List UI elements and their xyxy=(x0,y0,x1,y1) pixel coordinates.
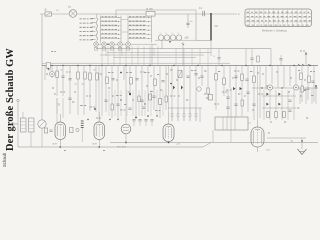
wire coil L1 bottom xyxy=(96,41,98,44)
wire rail stub x106 xyxy=(105,49,107,56)
label band2 e xyxy=(140,71,145,73)
label extra b xyxy=(72,101,74,103)
resistor R13 xyxy=(223,78,226,85)
pushbutton contact 1 xyxy=(171,108,174,121)
wire rail y56 xyxy=(100,54,204,56)
wire S2-S3 link a xyxy=(121,19,128,21)
node S1e xyxy=(92,35,93,36)
resistor R26 xyxy=(165,96,167,102)
coil L2 circle xyxy=(158,35,163,40)
node x130 blob xyxy=(129,93,131,95)
capacitor C37 xyxy=(128,108,131,109)
capacitor C8 xyxy=(111,79,114,80)
wire if-drop x151 xyxy=(150,90,152,116)
wire V2 anode xyxy=(98,112,100,122)
wire drop x224 xyxy=(223,66,225,97)
switch bank S2 row 4 label xyxy=(102,28,117,30)
capacitor C31 xyxy=(252,104,255,105)
wire C27 stub xyxy=(151,121,153,126)
wire L6 top stub xyxy=(22,112,24,118)
label extra r xyxy=(160,89,162,91)
diode D4 xyxy=(278,103,280,106)
resistor R25 xyxy=(111,104,113,110)
label extra u xyxy=(288,91,290,93)
wire V1 cathode xyxy=(59,140,61,148)
wire ladder v x270 xyxy=(269,90,271,120)
wire V5 heater link xyxy=(267,137,306,139)
capacitor C18 xyxy=(245,79,248,80)
wire drop x308 xyxy=(307,66,309,101)
node return x316 xyxy=(315,87,316,88)
switch bank S2 row 6 xyxy=(101,38,122,40)
capacitor C27 xyxy=(150,120,153,121)
node V1 cathode join xyxy=(59,146,61,148)
node S2 row 3 xyxy=(118,25,119,26)
wire rail B+ corner xyxy=(270,49,272,66)
label extra m xyxy=(284,121,286,123)
wire aux drop x116 xyxy=(115,10,117,16)
switch bank S3 row 6 label xyxy=(129,37,145,39)
node V4 cathode join xyxy=(168,142,170,144)
fuse Si1 xyxy=(45,12,51,16)
resistor R6 xyxy=(96,73,99,80)
pushbutton contact 4 xyxy=(189,108,192,121)
tube V1 UCH21 xyxy=(55,122,66,140)
wire gang drop x42 xyxy=(41,66,43,120)
wire C26 stub xyxy=(145,121,147,126)
node bus x126 xyxy=(125,65,126,66)
node S2 row 6 xyxy=(118,38,119,39)
label M2 d xyxy=(218,71,220,73)
pickup jack xyxy=(11,123,18,126)
resistor R31 xyxy=(138,96,140,102)
capacitor C29 xyxy=(200,76,203,77)
wire drop x57 lower xyxy=(56,98,58,114)
node x305 dark xyxy=(304,89,306,91)
wire riser x150 xyxy=(149,46,151,66)
label extra l xyxy=(258,93,263,95)
label band2 o xyxy=(54,93,56,95)
resistor R9 xyxy=(154,79,157,86)
wire if-drop x127 xyxy=(126,90,128,116)
wire if-drop x163 xyxy=(162,90,164,116)
wire drop x248 xyxy=(247,66,249,113)
tube V5 UL41 xyxy=(251,127,264,147)
wire coil L1 top xyxy=(96,14,98,18)
wire drop x142 xyxy=(141,66,143,117)
capacitor C26 xyxy=(144,120,147,121)
label band2 x xyxy=(300,95,302,97)
label band2 f xyxy=(150,75,152,77)
switch bank S3 row 5 label xyxy=(129,33,145,35)
node S3 row 1 xyxy=(148,17,149,18)
resistor R18 xyxy=(267,112,270,118)
wire drop x70 xyxy=(69,66,71,115)
svg-text:UCH: UCH xyxy=(52,144,57,146)
capacitor C11 xyxy=(142,107,145,108)
switch bank S2 row 4 xyxy=(101,29,122,31)
wire riser x132 xyxy=(131,46,133,66)
label extra s xyxy=(222,91,227,93)
label band2 q xyxy=(112,95,114,97)
wire drop x196 xyxy=(195,66,197,109)
capacitor C36 xyxy=(116,104,119,105)
wire drop x302 xyxy=(301,66,303,103)
wire drop x96 xyxy=(95,66,97,113)
wire rail y63 xyxy=(42,62,230,64)
capacitor C21 xyxy=(311,81,314,82)
ground symbol tick xyxy=(300,151,305,153)
resistor R1 series xyxy=(146,11,155,16)
wire osc drop x183 xyxy=(182,42,184,66)
label M1 g xyxy=(150,91,153,93)
wire ladder v x276 xyxy=(275,90,277,120)
switch bank S3 row 1 xyxy=(128,17,152,19)
wire ladder top xyxy=(262,95,296,97)
node S2 row 4 xyxy=(118,30,119,31)
resistor R17 xyxy=(253,76,256,83)
capacitor C26 xyxy=(68,98,71,99)
switch contact S1e xyxy=(92,34,96,36)
diode D6 xyxy=(240,87,243,90)
node x121 dark xyxy=(120,72,122,74)
switch bank S3 row 4 label xyxy=(129,28,145,30)
resistor R22 xyxy=(308,76,311,83)
wire drop x242 xyxy=(241,66,243,117)
node S3 row 3 xyxy=(148,25,149,26)
label band2 m xyxy=(290,77,292,79)
label R f xyxy=(311,95,313,97)
diode D1 xyxy=(266,93,268,96)
label extra g xyxy=(170,95,175,97)
wire coil row drop xyxy=(151,44,153,65)
node S1c xyxy=(92,26,93,27)
resistor R12 xyxy=(215,74,218,81)
label R c xyxy=(257,72,259,74)
switch wafer contact 4 xyxy=(118,42,123,50)
switch row S1b label xyxy=(80,22,93,24)
wire if-drop x109 xyxy=(108,90,110,116)
fuse Si1 element xyxy=(46,13,51,16)
node bus x310 xyxy=(309,65,310,66)
capacitor C19 xyxy=(288,100,291,101)
diode D2 xyxy=(278,93,280,96)
wire drop low x300 xyxy=(299,88,301,104)
label band2 a xyxy=(46,73,48,75)
label band2 l xyxy=(276,71,278,73)
wire drop x202 xyxy=(201,66,203,87)
wire drop x166 xyxy=(165,66,167,111)
node S1d xyxy=(92,31,93,32)
node bus x222 xyxy=(221,65,222,66)
node x136 dark xyxy=(135,117,137,119)
wire V5 anode xyxy=(257,120,259,127)
wire return rail y88 xyxy=(252,87,318,89)
resistor R5 xyxy=(89,73,92,80)
wire ladder bottom xyxy=(262,107,296,109)
coil L4 circle xyxy=(170,35,175,40)
switch contact S1b xyxy=(92,22,96,24)
variable capacitor C22 xyxy=(38,120,46,128)
wire switch drop x200 xyxy=(199,108,201,122)
wire drop x118 xyxy=(117,66,119,121)
diode marks M2 xyxy=(173,86,183,90)
label misc a xyxy=(80,105,86,107)
switch bank S3 row 3 label xyxy=(129,24,145,26)
wire C35 stub b xyxy=(218,59,220,66)
capacitor C2 xyxy=(186,23,189,24)
wire drop x52 xyxy=(51,66,53,79)
wire drop x266 xyxy=(265,66,267,91)
wire Tr1 to V5 xyxy=(248,122,251,124)
wire rail mid drop x211 xyxy=(210,41,212,57)
label extra n xyxy=(297,107,299,109)
wire bottom return right xyxy=(110,142,318,144)
switch bank S2 row 2 xyxy=(101,21,122,23)
wire diagonal link xyxy=(203,143,211,148)
switch wafer contact 5 xyxy=(126,42,131,50)
coil L6 primary xyxy=(21,118,27,132)
switch bank S2 row 5 label xyxy=(102,33,117,35)
wire riser x120 xyxy=(119,46,121,66)
wire V3 top xyxy=(125,115,127,124)
wire riser x114 xyxy=(113,46,115,66)
node S3 row 5 xyxy=(148,34,149,35)
switch wafer contact 3 xyxy=(110,42,115,50)
node above V4 xyxy=(147,115,149,117)
node if c xyxy=(156,115,157,116)
switch contact S1c xyxy=(92,26,96,28)
resistor R3 xyxy=(77,72,80,79)
wire drop x236 xyxy=(235,66,237,119)
label M1 h xyxy=(155,110,161,112)
capacitor C15 xyxy=(226,107,229,108)
switch bank S2 row 5 xyxy=(101,33,122,35)
arrow marks on bus right xyxy=(298,64,310,66)
wire drop x178 xyxy=(177,66,179,109)
wire drop x112 xyxy=(111,66,113,119)
label extra k xyxy=(238,93,240,95)
switch row S1d label xyxy=(80,31,93,33)
wire coil row xyxy=(155,39,196,41)
wire drop x90 xyxy=(89,66,91,112)
capacitor C17 xyxy=(234,76,237,77)
wire drop x148 xyxy=(147,66,149,113)
switch bank S3 frame xyxy=(128,16,152,43)
label band2 b xyxy=(66,71,71,73)
wire C39 stub a xyxy=(280,55,282,59)
node speaker feed xyxy=(301,140,303,142)
switch bank S2 row 1 label xyxy=(102,16,117,18)
capacitor C24 xyxy=(132,120,135,121)
node bus x78 xyxy=(77,65,78,66)
coil L7 secondary xyxy=(29,118,35,132)
IF can circle B xyxy=(293,85,298,90)
wire wafer row xyxy=(94,43,157,45)
wire drop low x312 xyxy=(311,88,313,104)
switch row S1e label xyxy=(80,35,93,37)
label extra i xyxy=(204,93,206,95)
svg-text:2Ω: 2Ω xyxy=(215,25,218,28)
wire rail stub x138 xyxy=(137,49,139,56)
wire Tr1 bottom stub xyxy=(230,130,232,143)
wire drop low x306 xyxy=(305,88,307,104)
wire V4 cathode xyxy=(168,142,170,143)
wire drop x130 xyxy=(129,66,131,97)
resistor R8 xyxy=(130,78,133,85)
resistor R27 xyxy=(207,88,209,94)
label M2 e xyxy=(226,89,232,91)
resistor R28 xyxy=(241,100,243,106)
label M1 e xyxy=(116,95,122,97)
potentiometer P1 xyxy=(178,71,182,78)
wire drop x45 xyxy=(44,66,46,81)
label M1 c xyxy=(144,72,150,74)
capacitor C28 xyxy=(140,100,143,101)
pushbutton contact 2 xyxy=(177,108,180,121)
antenna terminal xyxy=(17,99,19,101)
voltage table grid xyxy=(245,9,312,27)
resistor R19 xyxy=(275,112,278,118)
svg-text:Meßwerte n. Schaltung: Meßwerte n. Schaltung xyxy=(262,30,287,33)
label right of V5 xyxy=(268,132,270,134)
node mains A xyxy=(210,13,212,15)
wire drop x168 to V4 xyxy=(168,66,170,112)
wire Tr1 side drop xyxy=(212,130,214,143)
label R b xyxy=(250,71,252,73)
resistor R10 xyxy=(149,94,152,100)
wire if-drop x139 xyxy=(138,90,140,116)
wire rail drop x208 xyxy=(207,49,209,66)
capacitor C20 xyxy=(288,110,291,111)
wire C25 stub xyxy=(139,121,141,126)
label M1 a xyxy=(108,72,114,74)
label band2 k xyxy=(262,73,264,75)
wire drop x126 to V3 xyxy=(125,66,127,115)
resistor R14 xyxy=(209,95,213,101)
wire drop x190 xyxy=(189,66,191,109)
node bus x246 xyxy=(245,65,246,66)
node bus x198 xyxy=(197,65,198,66)
capacitor C9 xyxy=(135,79,138,80)
node if b xyxy=(144,103,145,104)
switch contact S1f xyxy=(92,39,96,41)
label extra h xyxy=(186,99,188,101)
wire rail drop x200 xyxy=(199,49,201,66)
label extra j xyxy=(214,103,219,105)
wire C16 stub xyxy=(251,49,253,58)
switch bank S2 row 6 label xyxy=(102,37,117,39)
switch bank S3 row 1 label xyxy=(129,16,145,18)
wire K1 drop xyxy=(81,128,83,142)
wire drop x57 xyxy=(56,66,58,97)
label R d xyxy=(298,70,300,72)
wire drop x230 xyxy=(229,66,231,89)
node x95 dark xyxy=(94,108,96,110)
resistor R30 xyxy=(45,128,48,133)
label M1 d xyxy=(157,74,159,76)
wire drop x257 to V5 xyxy=(257,66,259,120)
label band2 u xyxy=(244,95,246,97)
wire bottom return xyxy=(18,146,203,148)
capacitor C1 series xyxy=(203,11,205,16)
node bus x150 xyxy=(149,65,150,66)
label bus left xyxy=(51,51,56,53)
resistor R11 xyxy=(159,99,162,105)
label band2 n xyxy=(304,79,306,81)
node S1a xyxy=(92,18,93,19)
capacitor C7 xyxy=(68,79,71,80)
node return x302 xyxy=(301,87,302,88)
wire rail drop x176 xyxy=(175,49,177,66)
node bus x174 xyxy=(173,65,174,66)
wire coil row drop2 xyxy=(161,40,163,49)
wire C16 stub2 xyxy=(251,60,253,66)
wire riser x196 xyxy=(195,14,197,41)
wire ladder v x288 xyxy=(287,90,289,120)
wire drop x216 xyxy=(215,66,217,111)
wire drop x284 xyxy=(283,66,285,89)
label band2 g xyxy=(166,73,168,75)
wire V4 anode xyxy=(168,112,170,124)
voltage table frame xyxy=(245,9,312,27)
node S3 row 4 xyxy=(148,30,149,31)
capacitor C25 xyxy=(138,120,141,121)
svg-text:Schaub: Schaub xyxy=(2,152,7,167)
label extra d xyxy=(108,87,110,89)
switch bank S2 row 1 xyxy=(101,17,122,19)
coil L1 vertical winding xyxy=(96,18,98,40)
wire rail drop x192 xyxy=(191,49,193,66)
resistor R29 xyxy=(301,86,303,92)
capacitor C27 xyxy=(104,100,107,101)
capacitor C39 xyxy=(279,59,282,60)
node bus x102 xyxy=(101,65,102,66)
wire C24 stub xyxy=(133,121,135,126)
resistor R4 xyxy=(84,72,87,79)
node if a xyxy=(120,99,121,100)
label band2 j xyxy=(232,77,237,79)
node V3 cathode xyxy=(125,142,127,144)
arrow mark speaker xyxy=(305,52,307,55)
label extra q xyxy=(132,99,134,101)
label extra p xyxy=(96,117,101,119)
wire C35 stub a xyxy=(218,49,220,58)
node V2 cathode join xyxy=(98,146,100,148)
node S1f xyxy=(92,39,93,40)
arrow mark osc xyxy=(182,44,184,46)
wire L7 drop xyxy=(30,132,32,147)
label extra o xyxy=(52,87,54,89)
wire C22 drop xyxy=(41,128,43,147)
switch bank S3 row 4 xyxy=(128,29,152,31)
wire drop x84 xyxy=(83,66,85,116)
wire drop x172 xyxy=(171,66,173,109)
label under V1 xyxy=(64,150,66,152)
label R a xyxy=(234,70,239,72)
wire antenna drop xyxy=(17,102,19,147)
label M2 b xyxy=(191,70,196,72)
switch contact S1d xyxy=(92,30,96,32)
node S3 row 6 xyxy=(148,38,149,39)
wire drop x102 xyxy=(101,66,103,117)
wire rail drop x184 xyxy=(183,49,185,66)
label band2 d xyxy=(116,79,118,81)
voltage table cell values xyxy=(247,12,311,25)
switch bank S2 row 3 label xyxy=(102,24,117,26)
label band2 p xyxy=(74,91,76,93)
wire V2 cathode xyxy=(98,140,100,148)
